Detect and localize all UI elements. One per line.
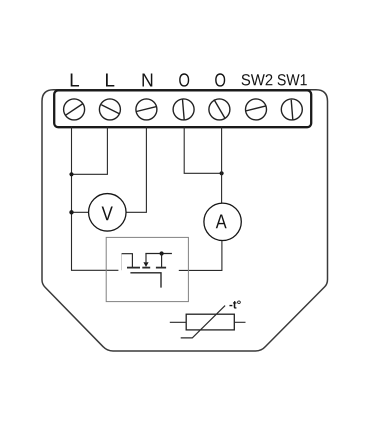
- mosfet source riser: [161, 254, 163, 268]
- node: mosfet top junction: [160, 251, 164, 255]
- terminal label SW1: [278, 74, 307, 85]
- terminal label L (2): [106, 73, 114, 86]
- screw terminal 7 (SW1): [281, 99, 302, 120]
- thermistor NTC body: [186, 314, 234, 330]
- thermistor left lead: [170, 321, 186, 323]
- screw terminal 6 (SW2): [246, 99, 267, 120]
- thermistor right lead: [234, 321, 245, 323]
- mosfet switch box: [106, 237, 188, 301]
- wire: L2 terminal down and left to L1 wire: [72, 127, 108, 175]
- wire: A meter bottom down and left to mosfet box right lead: [179, 241, 222, 271]
- node: junction L bridge: [69, 172, 73, 176]
- node: junction O bridge: [220, 171, 224, 175]
- node: junction at V tap: [69, 210, 73, 214]
- voltmeter V: [89, 194, 127, 232]
- terminal label SW2: [242, 74, 273, 85]
- thermistor label -t°: [229, 300, 240, 308]
- mosfet gate line: [130, 273, 161, 288]
- screw terminal 3 (N): [136, 99, 157, 120]
- terminal label O (4): [179, 73, 189, 86]
- screw terminal 5 (O): [209, 99, 230, 120]
- mosfet top bar: [145, 253, 172, 255]
- mosfet substrate arrow: [143, 262, 148, 267]
- terminal label N: [142, 73, 152, 86]
- terminal block: [54, 90, 311, 127]
- screw terminal 4 (O): [173, 99, 194, 120]
- mosfet Q1 drain bar: [122, 254, 133, 268]
- mosfet channel dash 1: [127, 267, 140, 269]
- screw terminal 1 (L): [64, 99, 85, 120]
- mosfet substrate lead with arrow: [145, 254, 147, 263]
- mosfet channel dash 3: [156, 267, 166, 269]
- thermistor diagonal stroke: [181, 306, 225, 338]
- wire: O5 terminal down to A meter top: [221, 127, 223, 204]
- ammeter A: [204, 203, 241, 240]
- wire: L1 terminal down to mosfet box left lead: [72, 127, 119, 271]
- mosfet Q1 drain riser (thin): [121, 254, 123, 271]
- wire: N terminal down to V meter right: [126, 127, 146, 213]
- device body outline: [42, 90, 328, 351]
- mosfet channel dash 2: [142, 267, 150, 269]
- wire: L1 wire to V meter left: [72, 211, 89, 213]
- screw terminal 2 (L): [99, 99, 120, 120]
- terminal label L (1): [71, 73, 79, 86]
- terminal label O (5): [215, 73, 225, 86]
- wire: O4 terminal down and right to O5 wire: [184, 127, 221, 174]
